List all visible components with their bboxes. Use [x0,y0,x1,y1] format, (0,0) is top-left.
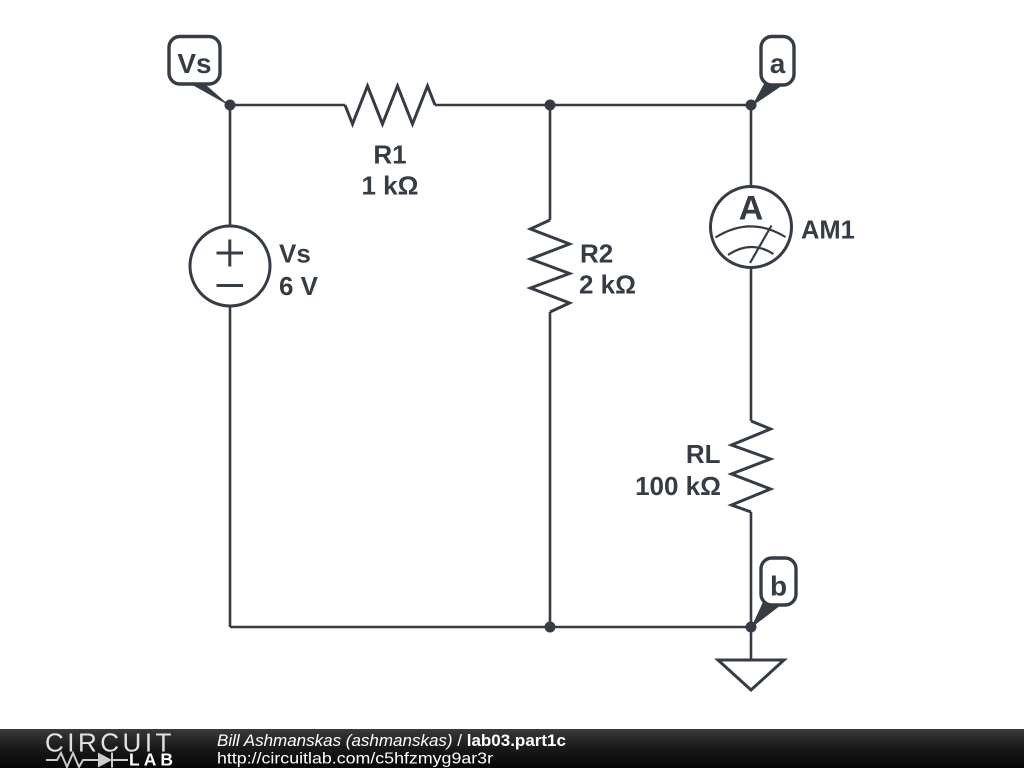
svg-text:Vs: Vs [279,239,311,269]
wire junction to node a [550,104,751,107]
svg-text:AM1: AM1 [801,217,855,245]
svg-text:a: a [770,48,786,79]
wire top-left (Vs node to R1) [230,104,345,107]
svg-text:2 kΩ: 2 kΩ [579,270,636,300]
wire R2 top lead [549,105,552,220]
svg-text:100 kΩ: 100 kΩ [635,471,721,501]
wire node b to ground [750,627,753,659]
node flag b [751,558,796,628]
resistor R2 [531,220,637,312]
svg-text:A: A [739,190,764,228]
svg-text:1 kΩ: 1 kΩ [362,171,419,201]
ammeter AM1 [711,187,855,268]
resistor RL [635,421,770,512]
voltage source Vs [190,226,319,306]
wire R2 bottom lead [549,312,552,627]
junction dot node Vs [225,100,236,111]
wire Vs source bottom lead [229,305,232,627]
junction dot R2 bottom [545,622,556,633]
node flag a [752,37,794,107]
wire ammeter to RL [750,266,753,421]
wire bottom rail [230,626,751,629]
junction dot node b [746,622,757,633]
svg-text:R1: R1 [373,140,406,170]
wire node a to ammeter [750,105,753,188]
ground [718,660,784,690]
footer bar [0,729,1024,768]
CircuitLab logo resistor-diode glyph [46,753,128,768]
wire RL to node b [750,512,753,627]
svg-text:Vs: Vs [177,48,211,79]
resistor R1 [345,86,435,201]
wire R1 to junction [435,104,550,107]
svg-text:RL: RL [686,439,721,469]
wire Vs source top lead [229,105,232,227]
svg-text:http://circuitlab.com/c5hfzmyg: http://circuitlab.com/c5hfzmyg9ar3r [217,751,494,768]
svg-text:b: b [770,571,787,602]
svg-text:R2: R2 [580,239,613,269]
svg-text:LAB: LAB [129,750,177,768]
svg-text:6 V: 6 V [279,271,319,301]
node flag Vs [169,37,230,107]
svg-text:Bill Ashmanskas (ashmanskas) /: Bill Ashmanskas (ashmanskas) / lab03.par… [217,731,566,750]
junction dot node a [746,100,757,111]
junction dot R2 top [545,100,556,111]
